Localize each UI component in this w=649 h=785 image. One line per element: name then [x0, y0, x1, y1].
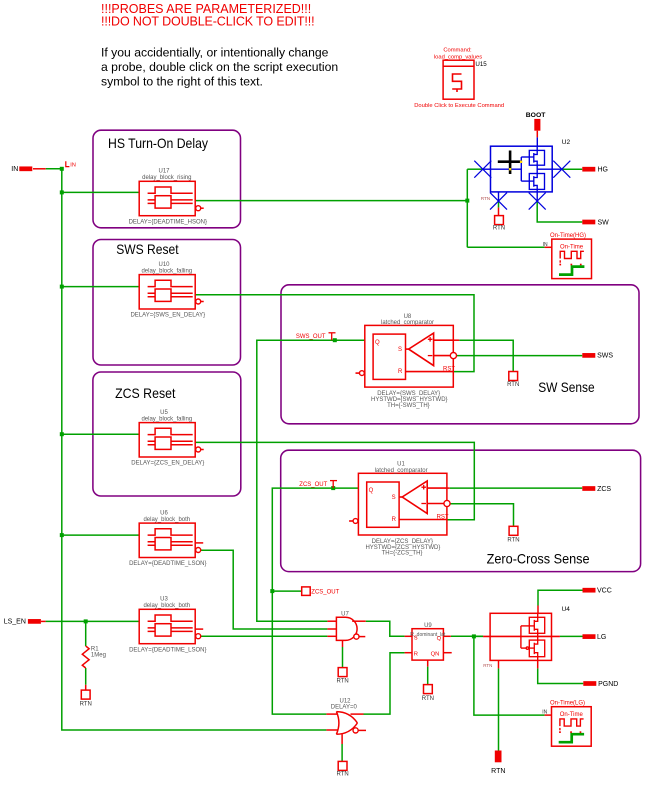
svg-text:HS Turn-On Delay: HS Turn-On Delay: [108, 135, 208, 151]
svg-text:SWS_OUT: SWS_OUT: [296, 334, 326, 340]
svg-text:RTN: RTN: [491, 768, 505, 775]
svg-text:SWS Reset: SWS Reset: [116, 241, 178, 257]
svg-text:U1: U1: [397, 462, 405, 468]
svg-text:R1: R1: [91, 647, 99, 653]
svg-text:On-Time: On-Time: [560, 244, 584, 250]
svg-text:LG: LG: [597, 634, 606, 641]
svg-text:RTN: RTN: [481, 196, 490, 201]
svg-text:ZCS_OUT: ZCS_OUT: [299, 482, 327, 488]
svg-text:RTN: RTN: [80, 702, 92, 708]
svg-text:S: S: [414, 635, 418, 641]
svg-text:DELAY={DEADTIME_HSON}: DELAY={DEADTIME_HSON}: [129, 219, 207, 225]
svg-text:U2: U2: [562, 139, 571, 146]
svg-text:R: R: [392, 517, 397, 523]
svg-text:S: S: [398, 347, 402, 353]
svg-text:On-Time: On-Time: [560, 712, 584, 718]
svg-text:ZCS_OUT: ZCS_OUT: [311, 590, 339, 596]
svg-text:PGND: PGND: [598, 681, 618, 688]
svg-text:RTN: RTN: [422, 696, 434, 702]
svg-text:delay_block_falling: delay_block_falling: [141, 416, 192, 422]
svg-text:delay_block_rising: delay_block_rising: [142, 175, 191, 181]
svg-text:On-Time(LG): On-Time(LG): [550, 701, 585, 707]
svg-text:IN: IN: [70, 163, 76, 169]
svg-text:R: R: [414, 651, 418, 657]
svg-text:U15: U15: [475, 61, 487, 68]
svg-text:U5: U5: [160, 410, 168, 416]
svg-text:On-Time(HG): On-Time(HG): [550, 233, 586, 239]
svg-text:S: S: [392, 495, 396, 501]
svg-text:DELAY={SWS_EN_DELAY}: DELAY={SWS_EN_DELAY}: [130, 313, 205, 319]
svg-text:LS_EN: LS_EN: [4, 619, 26, 626]
svg-text:IN: IN: [543, 242, 548, 248]
svg-text:delay_block_both: delay_block_both: [143, 517, 190, 523]
svg-text:Q: Q: [375, 340, 380, 346]
svg-text:RTN: RTN: [336, 679, 348, 685]
svg-text:Q: Q: [369, 488, 374, 494]
svg-text:U4: U4: [562, 606, 571, 613]
svg-text:U9: U9: [424, 623, 432, 629]
svg-text:SW Sense: SW Sense: [538, 379, 595, 395]
svg-text:QN: QN: [431, 651, 440, 657]
svg-text:If you accidentially, or inten: If you accidentially, or intentionally c…: [101, 46, 329, 60]
svg-text:U17: U17: [158, 169, 170, 175]
svg-text:DELAY={DEADTIME_LSON}: DELAY={DEADTIME_LSON}: [129, 647, 206, 653]
svg-text:RTN: RTN: [507, 537, 519, 543]
svg-text:a probe, double click on the s: a probe, double click on the script exec…: [101, 60, 338, 74]
svg-text:delay_block_falling: delay_block_falling: [141, 268, 192, 274]
svg-text:RST: RST: [443, 367, 455, 373]
svg-text:latched_comparator: latched_comparator: [375, 468, 428, 474]
svg-text:Command:: Command:: [443, 48, 472, 54]
svg-text:ZCS Reset: ZCS Reset: [115, 385, 175, 401]
svg-text:delay_block_both: delay_block_both: [143, 603, 190, 609]
svg-text:U3: U3: [160, 597, 168, 603]
svg-text:U10: U10: [158, 262, 170, 268]
svg-text:RTN: RTN: [507, 382, 519, 388]
svg-text:RTN: RTN: [336, 772, 348, 778]
svg-text:SWS: SWS: [597, 353, 613, 360]
svg-text:DELAY={DEADTIME_LSON}: DELAY={DEADTIME_LSON}: [129, 561, 206, 567]
svg-text:IN: IN: [11, 166, 18, 173]
svg-text:Zero-Cross Sense: Zero-Cross Sense: [487, 550, 590, 566]
svg-text:latched_comparator: latched_comparator: [381, 320, 434, 326]
svg-text:Q: Q: [437, 636, 442, 642]
svg-text:U8: U8: [404, 314, 412, 320]
svg-text:TH={-ZCS_TH}: TH={-ZCS_TH}: [382, 551, 423, 557]
svg-text:RTN: RTN: [493, 226, 505, 232]
svg-text:DELAY={ZCS_EN_DELAY}: DELAY={ZCS_EN_DELAY}: [131, 461, 204, 467]
svg-text:ZCS: ZCS: [597, 486, 611, 493]
svg-text:HG: HG: [598, 167, 609, 174]
svg-text:VCC: VCC: [597, 588, 612, 595]
svg-text:BOOT: BOOT: [526, 112, 546, 119]
svg-text:SW: SW: [598, 219, 610, 226]
svg-text:RST: RST: [437, 515, 449, 521]
svg-text:symbol to the right of this te: symbol to the right of this text.: [101, 74, 263, 88]
svg-text:R: R: [398, 369, 403, 375]
svg-text:TH={-SWS_TH}: TH={-SWS_TH}: [387, 403, 430, 409]
svg-text:RTN: RTN: [483, 663, 492, 668]
svg-text:Double Click to Execute Comman: Double Click to Execute Command: [414, 103, 504, 109]
svg-text:U6: U6: [160, 511, 168, 517]
svg-text:!!!DO NOT DOUBLE-CLICK TO EDIT: !!!DO NOT DOUBLE-CLICK TO EDIT!!!: [101, 14, 314, 28]
svg-text:load_comp_values: load_comp_values: [434, 54, 482, 60]
svg-text:U7: U7: [341, 612, 349, 618]
svg-text:IN: IN: [542, 710, 547, 716]
svg-text:1Meg: 1Meg: [91, 653, 106, 659]
svg-text:DELAY=0: DELAY=0: [331, 705, 358, 711]
